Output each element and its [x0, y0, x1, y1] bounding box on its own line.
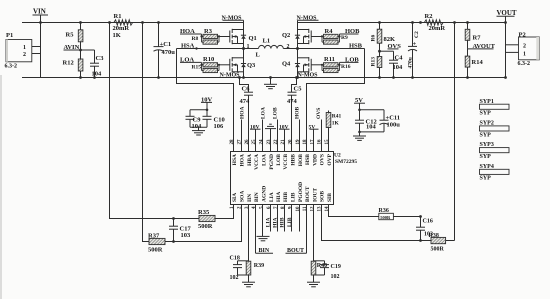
- svg-text:17: 17: [311, 139, 316, 145]
- svg-text:HSA: HSA: [232, 154, 238, 165]
- svg-text:VCCB: VCCB: [283, 154, 289, 170]
- svg-text:P1: P1: [6, 32, 13, 39]
- svg-text:LIA: LIA: [269, 192, 275, 202]
- node 10V tap: [206, 109, 209, 112]
- svg-text:100u: 100u: [387, 121, 401, 128]
- svg-text:L1: L1: [263, 38, 271, 45]
- net LIA (pin6 stub): [265, 205, 271, 232]
- svg-text:25: 25: [252, 139, 257, 145]
- wire HSA sense route to pin 28: [177, 49, 234, 152]
- net LOA: [180, 57, 202, 64]
- wire top bus (right): [298, 22, 506, 24]
- connector P2: [518, 32, 540, 68]
- connector SYP4: [480, 164, 510, 182]
- wire P2 pin2 stub: [506, 44, 519, 46]
- svg-text:500R: 500R: [198, 223, 213, 230]
- capacitor C10 106: [203, 110, 225, 130]
- net LOB: [340, 57, 360, 64]
- svg-text:BIN: BIN: [254, 192, 260, 202]
- svg-text:103: 103: [181, 232, 192, 239]
- svg-text:104: 104: [192, 123, 203, 130]
- svg-text:26: 26: [245, 139, 250, 145]
- capacitor C2 470u: [407, 23, 420, 78]
- wire pin1 SIA to R35: [215, 205, 234, 219]
- net 10V (decoupling block): [201, 97, 213, 110]
- capacitor C5 474: [287, 76, 302, 151]
- net N-MOS (phase A label): [222, 15, 244, 21]
- svg-text:470u: 470u: [407, 57, 413, 68]
- net VIN: [33, 8, 49, 23]
- resistor R37 500R: [148, 232, 165, 253]
- svg-text:SIA: SIA: [232, 193, 238, 202]
- wire pin14 SIB to R36: [329, 205, 379, 217]
- wire top bus VIN (left): [22, 22, 244, 24]
- wire pin2 SOA to R37: [165, 205, 242, 242]
- wire 5V block top rail: [360, 109, 385, 111]
- node R2 right sense tap: [453, 21, 456, 24]
- svg-text:R12: R12: [63, 60, 74, 67]
- wire P1 pin2 stub: [32, 53, 41, 55]
- node R4/R9 junctions: [321, 35, 341, 37]
- wire Q4 gate lead: [311, 64, 322, 66]
- wire pin27 HOA + net HOA: [239, 106, 245, 151]
- svg-text:470u: 470u: [162, 49, 176, 56]
- node C1 bottom: [157, 76, 160, 79]
- svg-text:SOB: SOB: [319, 191, 325, 202]
- node C4 bottom: [392, 76, 395, 79]
- svg-text:14: 14: [325, 206, 330, 212]
- net AVIN: [64, 44, 95, 51]
- svg-text:20: 20: [289, 139, 294, 145]
- resistor R3: [203, 28, 218, 39]
- net HIB (pin8 stub): [279, 205, 285, 232]
- wire Q3 gate lead: [219, 64, 230, 66]
- svg-text:AGND: AGND: [261, 186, 267, 202]
- svg-text:IIN: IIN: [247, 194, 253, 202]
- node R2 left: [419, 21, 422, 24]
- resistor R1 20mR 1K: [110, 13, 135, 39]
- wire switch node B: [283, 48, 364, 50]
- capacitor C16 103: [416, 217, 433, 241]
- svg-text:104: 104: [92, 70, 103, 77]
- svg-text:Q2: Q2: [282, 32, 290, 39]
- svg-text:16: 16: [318, 139, 323, 145]
- svg-text:HOA: HOA: [239, 106, 245, 119]
- capacitor C9 104: [186, 110, 203, 130]
- node switch A junction: [242, 47, 245, 50]
- resistor R35 500R: [198, 209, 215, 230]
- net LIB (pin9 stub): [287, 205, 293, 232]
- svg-text:OVP: OVP: [327, 153, 333, 165]
- net HOA: [180, 28, 202, 35]
- svg-text:SM72295: SM72295: [335, 159, 357, 165]
- svg-text:21: 21: [281, 139, 286, 145]
- svg-text:R6: R6: [371, 35, 377, 42]
- svg-text:24: 24: [260, 139, 265, 145]
- wire SOB sense riser (R2 right to R38): [454, 23, 456, 241]
- svg-text:R15: R15: [192, 64, 202, 70]
- capacitor C11 100u: [380, 110, 401, 132]
- svg-text:Q1: Q1: [249, 35, 257, 42]
- resistor R6 82K: [371, 23, 395, 52]
- node R10/R15 junctions: [200, 64, 220, 66]
- svg-text:U2: U2: [334, 152, 341, 158]
- wire Q1 gate lead: [219, 36, 230, 38]
- svg-text:R41: R41: [332, 114, 342, 120]
- svg-text:IOUT: IOUT: [312, 188, 318, 202]
- net N-MOS (phase B label): [297, 15, 319, 21]
- svg-text:N-MOS: N-MOS: [298, 72, 319, 78]
- wire pin12 IOUT riser: [313, 205, 315, 262]
- svg-text:20mR: 20mR: [429, 25, 446, 32]
- svg-text:R8: R8: [192, 36, 199, 42]
- node VOUT junction: [504, 21, 507, 24]
- node R5 top: [79, 21, 82, 24]
- svg-text:27: 27: [238, 139, 243, 145]
- net BOUT (pin11): [286, 205, 307, 255]
- pin numbers bottom row 1..14: [230, 206, 330, 212]
- net 5V (decoupling block): [354, 97, 365, 110]
- node R12 bottom: [79, 76, 82, 79]
- svg-text:OVS: OVS: [316, 108, 322, 119]
- resistor R36 500R: [379, 208, 394, 220]
- pin names bottom row: [232, 182, 333, 202]
- svg-text:N-MOS: N-MOS: [220, 72, 241, 78]
- wire pin3 IIN riser: [248, 205, 250, 262]
- resistor R12: [63, 50, 83, 78]
- ground (5V block): [353, 132, 366, 141]
- resistor R5: [66, 23, 83, 51]
- svg-text:LIB: LIB: [290, 192, 296, 202]
- connector SYP3: [480, 142, 510, 160]
- net HSA (switch node A wire): [177, 43, 259, 50]
- node R6 top: [378, 21, 381, 24]
- node 5V block bottom: [358, 131, 361, 134]
- svg-text:C6: C6: [242, 85, 251, 92]
- resistor R2 20mR: [421, 13, 446, 32]
- svg-text:104: 104: [393, 64, 404, 71]
- net BIN (pin4): [256, 205, 274, 255]
- wire pin25 VCCA + net 10V: [250, 124, 261, 151]
- svg-text:6.3-2: 6.3-2: [518, 61, 531, 67]
- ground (R39/C18): [242, 282, 255, 287]
- wire pin10 PGOOD stub: [299, 205, 301, 232]
- node C17 bottom: [172, 240, 175, 243]
- wire P2 pin1 stub: [506, 51, 519, 53]
- svg-text:R2: R2: [425, 13, 433, 20]
- ground pin5 AGND: [257, 205, 270, 241]
- svg-text:VOUT: VOUT: [497, 9, 517, 17]
- node ground tap: [269, 76, 272, 79]
- svg-text:474: 474: [240, 98, 251, 105]
- svg-text:19: 19: [296, 139, 301, 145]
- capacitor C4 104: [389, 51, 403, 77]
- svg-text:R13: R13: [371, 57, 377, 67]
- svg-text:LOA: LOA: [261, 107, 267, 119]
- node R1 right: [141, 21, 144, 24]
- svg-text:23: 23: [267, 139, 272, 145]
- svg-text:1K: 1K: [332, 120, 340, 126]
- svg-text:LOA: LOA: [261, 154, 267, 166]
- net HIA (pin7 stub): [272, 205, 278, 232]
- svg-text:28: 28: [230, 139, 235, 145]
- wire ground bus (main, y=77.5): [22, 77, 506, 79]
- svg-text:HOB: HOB: [298, 154, 304, 167]
- svg-text:HSA: HSA: [181, 43, 195, 50]
- pin numbers top row 28..15: [230, 139, 330, 145]
- node C2 bottom: [411, 76, 414, 79]
- wire R38 to sense riser: [446, 240, 455, 242]
- wire pin13 SOB to R38: [322, 205, 432, 241]
- svg-text:1K: 1K: [113, 32, 121, 39]
- ground (10V block): [192, 127, 205, 135]
- node AVIN junction: [79, 49, 82, 52]
- wire pin23 PGND + ground: [265, 124, 276, 151]
- capacitor C3: [90, 50, 104, 78]
- node switch B junction: [296, 47, 299, 50]
- svg-text:VIN: VIN: [33, 8, 46, 16]
- node R11/R16 junctions: [321, 64, 341, 66]
- node R14 bottom: [466, 76, 469, 79]
- svg-text:15: 15: [325, 139, 330, 145]
- capacitor C6 474: [238, 76, 253, 151]
- op-amp/driver IC U2 SM72295 body: [231, 152, 358, 205]
- net VOUT: [497, 9, 517, 23]
- svg-text:474: 474: [287, 98, 298, 105]
- net OVS: [380, 43, 402, 51]
- svg-text:OVS: OVS: [319, 154, 325, 165]
- inductor L1: [256, 38, 284, 59]
- svg-text:SOA: SOA: [239, 191, 245, 202]
- svg-text:Q3: Q3: [247, 62, 256, 69]
- svg-text:HIA: HIA: [272, 217, 278, 227]
- node R3/R8 junctions: [200, 35, 220, 37]
- capacitor C12 104: [355, 110, 377, 132]
- svg-text:500R: 500R: [431, 247, 445, 253]
- wire 10V block bottom rail: [190, 126, 207, 128]
- wire P1 pin1 stub: [32, 46, 41, 48]
- resistor R38 500R: [429, 233, 446, 253]
- node C3 bottom: [93, 76, 96, 79]
- svg-text:18: 18: [303, 139, 308, 145]
- resistor R40: [311, 261, 327, 282]
- svg-text:C3: C3: [96, 55, 105, 62]
- capacitor C18 102: [230, 256, 249, 281]
- wire P1 riser: [40, 23, 42, 78]
- wire pin21 VCCB + net 10V: [279, 124, 290, 151]
- svg-text:LOB: LOB: [273, 107, 279, 119]
- svg-text:1: 1: [523, 51, 526, 57]
- node C16 top: [419, 215, 422, 218]
- transistor Q1: [230, 29, 257, 44]
- svg-text:102: 102: [331, 274, 340, 280]
- resistor R13: [371, 51, 382, 77]
- node on HSA wire: [195, 47, 197, 49]
- svg-text:HOA: HOA: [239, 154, 245, 167]
- svg-text:500R: 500R: [148, 246, 163, 253]
- svg-text:R9: R9: [341, 35, 348, 41]
- wire R1-left sense riser to R35: [110, 23, 200, 219]
- wire pin16 OVS + net OVS: [316, 108, 322, 152]
- svg-text:102: 102: [230, 275, 239, 281]
- resistor R39: [246, 261, 264, 282]
- wire R36 to C16 node: [393, 216, 420, 218]
- svg-text:PGOOD: PGOOD: [298, 182, 304, 202]
- svg-text:C16: C16: [423, 218, 433, 224]
- svg-text:10: 10: [296, 206, 301, 212]
- svg-text:Q4: Q4: [282, 60, 291, 67]
- node Q3 source on ground bus: [242, 76, 245, 79]
- svg-text:R1: R1: [114, 13, 122, 20]
- connector SYP2: [480, 121, 510, 139]
- ground (R40/C19): [307, 282, 320, 287]
- svg-text:LIB: LIB: [287, 217, 293, 227]
- node C2 top: [411, 21, 414, 24]
- svg-text:R39: R39: [254, 263, 264, 269]
- svg-text:HSB: HSB: [305, 154, 311, 165]
- wire P2 riser: [505, 23, 507, 78]
- resistor R4: [324, 28, 339, 39]
- resistor R9: [322, 34, 348, 44]
- resistor R11: [324, 56, 339, 67]
- wire Q2 gate lead: [311, 36, 322, 38]
- wire pin22 LOB + net LOB: [273, 107, 279, 151]
- svg-text:106: 106: [214, 123, 225, 130]
- capacitor C1 470u: [154, 23, 176, 78]
- wire half-bridge B vertical (Q2/Q4 rail): [297, 20, 299, 77]
- svg-text:HBB: HBB: [290, 154, 296, 166]
- connector SYP1: [480, 99, 510, 117]
- svg-text:HOB: HOB: [294, 106, 300, 119]
- svg-text:1: 1: [23, 45, 26, 51]
- svg-text:HIB: HIB: [283, 192, 289, 202]
- svg-text:L: L: [256, 51, 261, 58]
- node C17 top: [172, 217, 175, 220]
- svg-text:R5: R5: [66, 31, 75, 38]
- svg-text:PGND: PGND: [269, 154, 275, 170]
- node OVS junction: [378, 50, 381, 53]
- transistor Q4: [282, 57, 311, 72]
- pin names top row: [232, 153, 333, 170]
- resistor R16: [322, 62, 351, 72]
- svg-text:+C1: +C1: [160, 41, 172, 48]
- svg-text:2: 2: [287, 44, 290, 50]
- svg-text:R7: R7: [473, 35, 482, 42]
- svg-text:500R: 500R: [380, 215, 391, 220]
- ground (power bus): [264, 78, 277, 89]
- capacitor C17 103: [169, 219, 191, 242]
- net AVOUT: [468, 43, 496, 50]
- resistor R7: [465, 23, 481, 49]
- svg-text:22: 22: [274, 139, 279, 145]
- node R13 bottom: [378, 76, 381, 79]
- svg-text:HIA: HIA: [276, 192, 282, 202]
- node C16 bottom: [419, 239, 422, 242]
- svg-text:VCCA: VCCA: [254, 154, 260, 170]
- svg-text:LOB: LOB: [276, 154, 282, 166]
- svg-text:104: 104: [366, 124, 377, 131]
- node 5V tap: [358, 109, 361, 112]
- node R1 left: [108, 21, 111, 24]
- node Q4 source on ground bus: [296, 76, 299, 79]
- svg-text:6.3-2: 6.3-2: [5, 63, 18, 69]
- resistor R10: [203, 56, 218, 67]
- wire 10V block top rail: [190, 109, 207, 111]
- wire HSB sense route to pin 18: [307, 49, 365, 152]
- svg-text:R16: R16: [341, 64, 351, 70]
- resistor R15: [192, 62, 220, 72]
- svg-text:HBA: HBA: [247, 154, 253, 166]
- node P2 riser ground end: [504, 76, 507, 79]
- svg-text:2: 2: [523, 44, 526, 50]
- wire pin24 LOA + net LOA: [261, 107, 267, 151]
- svg-text:LIA: LIA: [265, 217, 271, 227]
- svg-text:C2: C2: [414, 31, 420, 38]
- wire 5V block bottom rail: [360, 131, 385, 133]
- svg-text:1: 1: [247, 44, 250, 50]
- wire pin19 HOB + net HOB: [294, 106, 300, 151]
- svg-text:R10: R10: [203, 56, 214, 63]
- svg-text:HIB: HIB: [279, 217, 285, 227]
- resistor R8: [192, 34, 220, 44]
- svg-text:BOUT: BOUT: [305, 186, 311, 202]
- node C1 top: [157, 21, 160, 24]
- svg-text:SIB: SIB: [327, 193, 333, 202]
- node VIN junction: [39, 21, 42, 24]
- svg-text:HSB: HSB: [349, 43, 363, 50]
- wire R1-right sense riser to R37: [143, 23, 150, 242]
- transistor Q3: [230, 57, 256, 72]
- svg-text:SYP: SYP: [480, 176, 492, 182]
- capacitor C19 102: [314, 261, 341, 280]
- wire pin17 VDD + net 5V: [309, 124, 319, 151]
- resistor R14: [465, 49, 483, 78]
- svg-text:SYP: SYP: [480, 154, 492, 160]
- svg-text:C19: C19: [331, 264, 341, 270]
- connector P1: [5, 32, 32, 69]
- svg-text:2: 2: [23, 52, 26, 58]
- scan edge artifact: [0, 75, 2, 299]
- svg-text:SYP: SYP: [480, 132, 492, 138]
- wire half-bridge A vertical (Q1/Q3 drain-source rail): [243, 20, 245, 77]
- svg-text:R11: R11: [324, 56, 335, 63]
- svg-text:R14: R14: [472, 59, 484, 66]
- node R7 top: [466, 21, 469, 24]
- svg-text:11: 11: [303, 206, 308, 211]
- transistor Q2: [282, 29, 311, 44]
- net HOB: [340, 28, 361, 35]
- svg-text:VDD: VDD: [312, 154, 318, 166]
- svg-text:C5: C5: [294, 85, 303, 92]
- svg-text:SYP: SYP: [480, 111, 492, 117]
- resistor R41 1K on pin15 OVP: [326, 111, 341, 152]
